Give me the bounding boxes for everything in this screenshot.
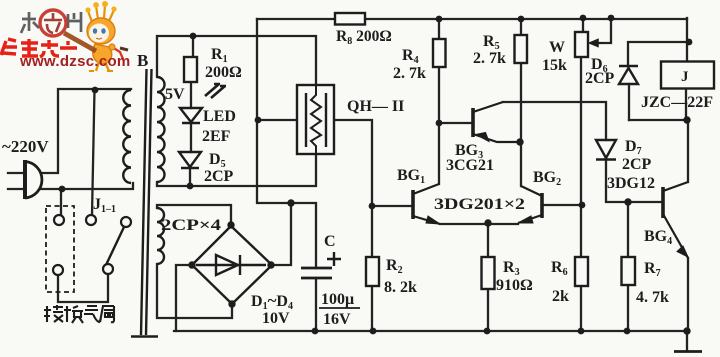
svg-text:R8 200Ω: R8 200Ω xyxy=(336,28,392,47)
watermark zhao-xin-pian stamp xyxy=(21,12,81,33)
wire emitter bus BG1-BG2 xyxy=(440,223,518,225)
resistor R3 910ohm xyxy=(482,257,495,289)
node D5 bottom xyxy=(187,183,194,190)
node R1 top xyxy=(190,33,197,40)
wire D7 to BG4 base xyxy=(606,158,662,202)
LED 2EF xyxy=(180,108,202,123)
wire R2 to bottom rail xyxy=(371,286,373,331)
diode D7 2CP xyxy=(596,140,616,160)
node bridge bottom xyxy=(228,300,235,307)
resistor R2 8.2k xyxy=(366,257,379,286)
resistor R1 200ohm xyxy=(184,57,197,82)
transistor BG1 xyxy=(413,184,440,224)
transformer bridge secondary winding xyxy=(157,208,164,264)
bridge rectifier diamond D1-D4 xyxy=(192,226,272,304)
wire BG2 base xyxy=(542,204,581,206)
svg-text:2CP: 2CP xyxy=(585,70,615,87)
node D6 top xyxy=(686,39,693,46)
svg-text:W: W xyxy=(549,39,565,56)
wire BG3 base xyxy=(439,122,472,124)
svg-text:200Ω: 200Ω xyxy=(205,64,242,81)
node rail R3 xyxy=(484,328,491,335)
switch contact circles xyxy=(53,215,131,275)
svg-text:www.dzsc.com: www.dzsc.com xyxy=(19,53,131,70)
wire B+ node to bridge right corner xyxy=(272,203,291,265)
wire R3 branch xyxy=(487,223,489,331)
switch blade J1-1 xyxy=(106,227,124,265)
svg-text:2. 7k: 2. 7k xyxy=(473,50,506,67)
node BG4 base R7 xyxy=(624,198,631,205)
wire coil2 top to bridge top xyxy=(157,205,231,226)
wire top rail xyxy=(257,18,687,20)
svg-text:C: C xyxy=(324,233,336,250)
wire capacitor to bottom rail xyxy=(315,278,317,331)
wire BG1 base xyxy=(372,205,412,207)
wire ground drop xyxy=(686,331,688,350)
wire D6 anode drop xyxy=(628,84,630,120)
watermark weiku-yixia red text xyxy=(1,39,77,57)
wire BG3 collector to D7 xyxy=(503,102,606,140)
wire bridge left corner to rail xyxy=(176,265,192,331)
wire plug prongs xyxy=(8,173,25,189)
node common emitter xyxy=(484,219,491,226)
node BG2 base W xyxy=(579,202,586,209)
QH heater zigzag xyxy=(311,86,321,153)
transformer 5V secondary winding xyxy=(157,77,165,182)
wire R7 branch xyxy=(627,202,629,331)
svg-text:2CP: 2CP xyxy=(622,156,652,173)
potentiometer W wiper arrow xyxy=(590,40,604,47)
svg-text:J: J xyxy=(681,69,689,85)
watermark magnifier handle xyxy=(64,33,96,51)
wire W drop to BG2 base node and R6 xyxy=(581,18,583,331)
svg-text:910Ω: 910Ω xyxy=(496,277,533,294)
switch dashed enclosure xyxy=(46,206,74,292)
LED arrows xyxy=(205,84,226,98)
svg-text:15k: 15k xyxy=(542,57,567,74)
node rail R7 xyxy=(624,328,631,335)
node QH left xyxy=(255,117,262,124)
svg-text:JZC—22F: JZC—22F xyxy=(641,94,713,111)
node primary top tap xyxy=(92,87,99,94)
transistor BG2 emitter arrow xyxy=(518,216,533,223)
wire primary top lead xyxy=(41,89,131,173)
capacitor C plates xyxy=(301,268,332,278)
wire relay top feed xyxy=(686,18,688,62)
wire R1 branch verticals xyxy=(190,36,193,186)
wire D6 cathode link xyxy=(628,42,689,66)
svg-text:LED: LED xyxy=(203,108,236,125)
wire switch drop 2 xyxy=(92,90,95,215)
wire 5V top (y=36) to QH top xyxy=(157,36,316,85)
svg-text:2CP: 2CP xyxy=(204,168,234,185)
svg-text:16V: 16V xyxy=(323,311,351,328)
transformer B core xyxy=(131,69,158,337)
svg-text:2EF: 2EF xyxy=(202,128,231,145)
wire R4 drop xyxy=(438,19,440,184)
node BG3 base xyxy=(436,120,443,127)
wire R5 drop xyxy=(520,19,522,142)
wire BG2 collector riser xyxy=(520,142,522,186)
node rail ground xyxy=(683,327,690,334)
resistor R4 2.7k xyxy=(433,39,446,67)
wire relay bottom to node xyxy=(685,88,687,120)
node rail cap xyxy=(312,328,319,335)
node plug bottom tap xyxy=(59,186,66,193)
wire W wiper link xyxy=(593,18,611,43)
transistor BG3 emitter arrow (PNP, points to base) xyxy=(476,133,489,142)
svg-text:4. 7k: 4. 7k xyxy=(636,289,669,306)
node rail R6 xyxy=(578,328,585,335)
watermark mascot xyxy=(85,1,123,71)
relay J coil box xyxy=(661,62,714,89)
wire coil2 bottom to bridge bottom xyxy=(157,264,232,318)
svg-text:D1~D4: D1~D4 xyxy=(251,291,293,312)
transistor BG1 emitter arrow xyxy=(426,216,440,224)
wire primary bottom lead xyxy=(40,183,133,189)
svg-text:10V: 10V xyxy=(262,310,290,327)
node bridge right xyxy=(267,261,274,268)
wire fan U loop xyxy=(58,275,108,302)
resistor R6 2k xyxy=(575,257,588,286)
wire relay node bus y=120 xyxy=(629,119,687,121)
svg-text:~220V: ~220V xyxy=(2,137,49,156)
wire QH left lead xyxy=(258,119,297,121)
svg-text:2CP×4: 2CP×4 xyxy=(161,217,221,234)
transistor BG4 xyxy=(663,182,688,258)
svg-text:5V: 5V xyxy=(165,86,185,103)
resistor R5 2.7k xyxy=(515,35,528,63)
diode D6 2CP xyxy=(619,66,638,84)
wire BG4 collector riser xyxy=(687,120,689,182)
resistor R8 200ohm xyxy=(335,13,365,25)
node BG1 base xyxy=(369,203,376,210)
transistor BG4 emitter arrow xyxy=(677,246,688,257)
resistor R7 4.7k xyxy=(622,257,636,285)
node rail R4 xyxy=(436,16,443,23)
wire 5V bottom (y=186) to QH bottom xyxy=(157,154,316,186)
humidity sensor QH-II box xyxy=(297,85,334,154)
svg-text:100μ: 100μ xyxy=(321,291,354,308)
wire left feed vertical (B+ riser x=257) xyxy=(257,19,291,203)
node B+ junction xyxy=(287,199,294,206)
svg-text:2. 7k: 2. 7k xyxy=(393,65,426,82)
svg-text:B: B xyxy=(137,51,148,70)
node rail R5 xyxy=(518,16,525,23)
label fan text (hand-drawn hanzi) xyxy=(44,305,114,323)
watermark magnifier ring xyxy=(40,10,66,36)
ground symbol xyxy=(674,350,702,353)
transistor BG2 xyxy=(518,186,542,223)
svg-text:QH— II: QH— II xyxy=(347,98,404,115)
transformer primary winding xyxy=(123,90,131,183)
node rail wiper xyxy=(608,15,615,22)
bridge inner diode xyxy=(196,255,266,275)
wire B+ node to capacitor xyxy=(291,203,316,268)
node rail R2 xyxy=(370,328,377,335)
svg-text:3DG12: 3DG12 xyxy=(607,175,655,192)
node BG3 emitter xyxy=(516,138,523,145)
plug xyxy=(25,160,42,199)
svg-text:2k: 2k xyxy=(552,288,569,305)
node rail W xyxy=(580,15,587,22)
QH electrodes xyxy=(306,93,326,147)
watermark xin character xyxy=(44,13,62,33)
capacitor plus sign xyxy=(327,252,341,266)
node bridge top xyxy=(227,221,234,228)
wire QH right lead to R2 xyxy=(334,120,372,257)
transistor BG3 xyxy=(473,102,521,142)
node relay bottom xyxy=(683,116,690,123)
node bridge left xyxy=(188,261,195,268)
svg-text:8. 2k: 8. 2k xyxy=(384,279,417,296)
svg-text:3DG201×2: 3DG201×2 xyxy=(434,196,525,213)
svg-text:3CG21: 3CG21 xyxy=(446,157,494,174)
diode D5 2CP xyxy=(179,152,201,168)
wire bottom rail xyxy=(174,330,687,332)
wire switch drop 1 xyxy=(60,189,62,215)
wire BG4 emitter to rail xyxy=(687,258,689,331)
potentiometer W body xyxy=(575,32,588,57)
